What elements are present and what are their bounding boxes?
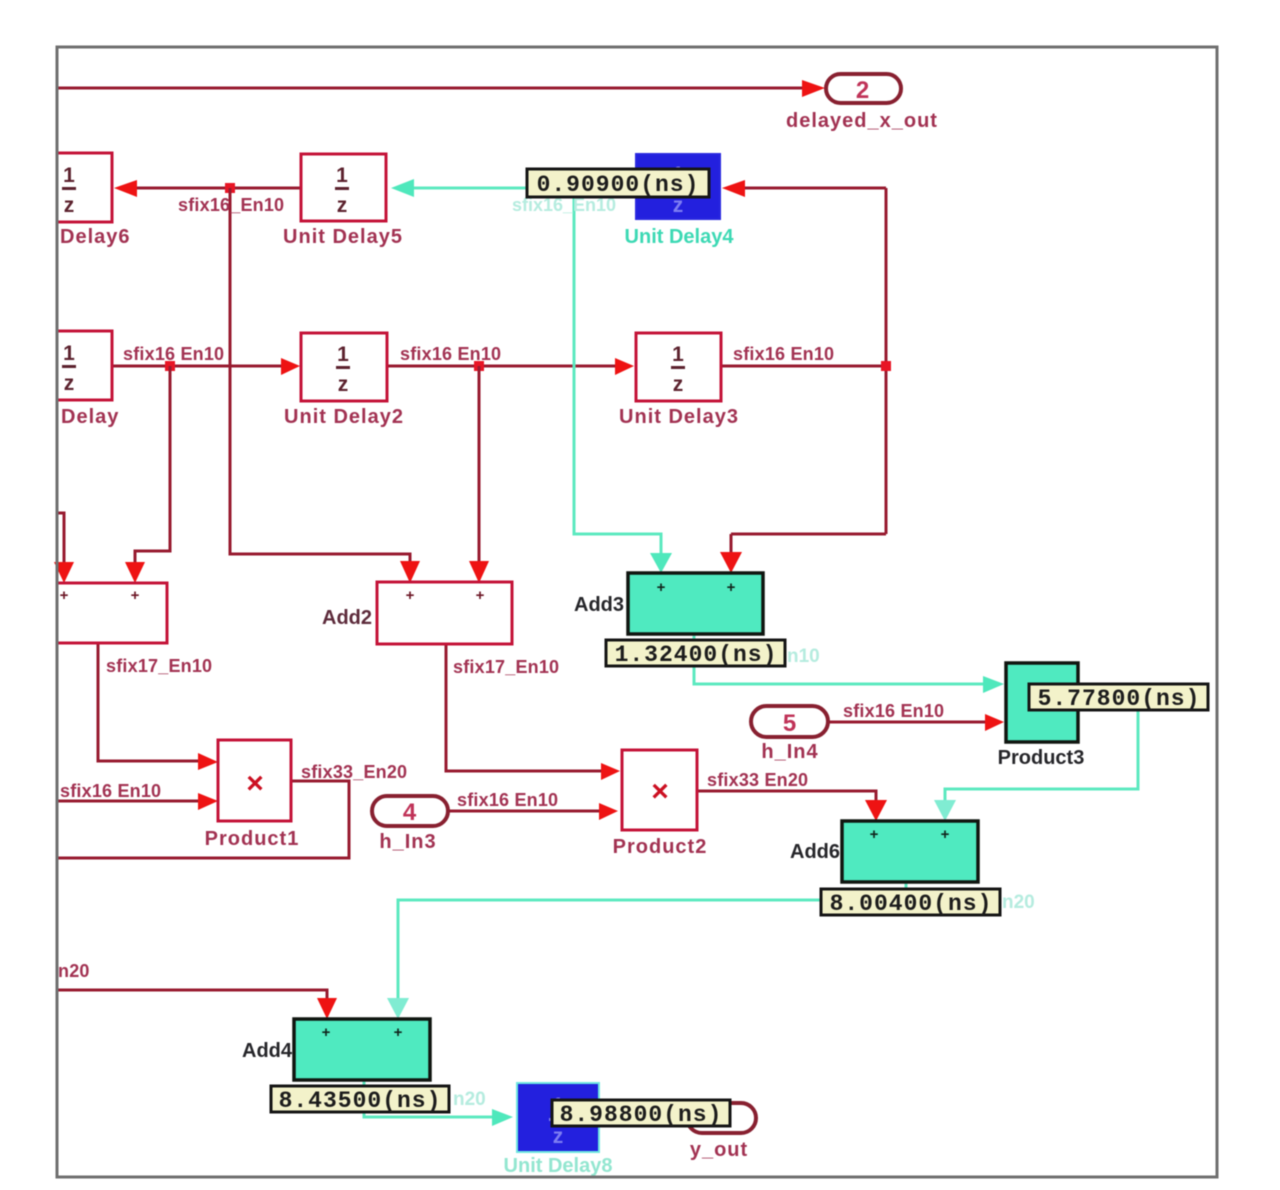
svg-text:Unit Delay8: Unit Delay8 <box>504 1155 613 1177</box>
timestamp 8.43500(ns) <box>271 1086 449 1114</box>
svg-text:delayed_x_out: delayed_x_out <box>786 110 938 132</box>
unit delay block Unit Delay8 (blue highlighted) <box>504 1083 613 1177</box>
wire junction x=170 down to Add1 input 2 <box>125 366 170 583</box>
svg-text:+: + <box>476 587 485 604</box>
wire junction x=230 down to Add2 input 1 <box>230 188 420 583</box>
wire Unit Delay3 output to x=886 vertical <box>721 188 886 534</box>
multiplier block Product2 <box>613 750 708 858</box>
svg-text:1: 1 <box>63 164 75 187</box>
wire Product1 output going left off frame <box>57 781 349 858</box>
svg-text:sfix16_En10: sfix16_En10 <box>178 195 284 215</box>
svg-text:Add6: Add6 <box>790 841 840 863</box>
svg-text:5.77800(ns): 5.77800(ns) <box>1038 686 1201 712</box>
wire junction x=479 down to Add2 input 2 <box>469 366 489 583</box>
adder block Add1 (partially clipped at frame) <box>57 583 167 643</box>
svg-text:2: 2 <box>856 77 870 104</box>
svg-text:+: + <box>322 1024 331 1041</box>
svg-text:sfix16 En10: sfix16 En10 <box>733 344 834 364</box>
svg-text:Unit Delay2: Unit Delay2 <box>284 406 404 428</box>
svg-text:sfix16 En10: sfix16 En10 <box>60 781 161 801</box>
svg-text:1.32400(ns): 1.32400(ns) <box>615 642 778 668</box>
inport 5 h_In4 <box>751 706 828 763</box>
svg-text:4: 4 <box>403 799 417 826</box>
svg-text:Product2: Product2 <box>613 836 708 858</box>
svg-text:+: + <box>131 587 140 604</box>
svg-text:+: + <box>657 579 666 596</box>
svg-text:n20: n20 <box>453 1089 486 1110</box>
svg-text:sfix16 En10: sfix16 En10 <box>400 344 501 364</box>
svg-text:sfix16 En10: sfix16 En10 <box>457 790 558 810</box>
wire from left edge into Add4 input 1 <box>57 990 337 1019</box>
wire into Unit Delay4 (from x=886 vertical) <box>722 180 886 197</box>
adder block Add3 (mint highlighted) <box>574 573 763 634</box>
svg-text:1: 1 <box>63 342 75 365</box>
svg-text:z: z <box>64 372 75 395</box>
svg-text:×: × <box>651 775 669 808</box>
svg-text:Unit Delay3: Unit Delay3 <box>619 406 739 428</box>
svg-text:8.98800(ns): 8.98800(ns) <box>560 1102 723 1128</box>
svg-text:n10: n10 <box>787 646 820 667</box>
wire h_In3 to Product2 input 2 <box>448 803 618 820</box>
svg-text:Delay: Delay <box>61 406 119 428</box>
wire Add1 output to Product1 input 1 <box>98 643 218 770</box>
wire Add4 output to Unit Delay8 (teal) <box>364 1080 513 1126</box>
inport 4 h_In3 <box>372 796 448 853</box>
svg-text:sfix33_En20: sfix33_En20 <box>301 762 407 782</box>
svg-text:8.43500(ns): 8.43500(ns) <box>279 1088 442 1114</box>
svg-text:+: + <box>727 579 736 596</box>
svg-text:y_out: y_out <box>690 1139 748 1161</box>
svg-text:+: + <box>941 826 950 843</box>
svg-text:+: + <box>60 587 69 604</box>
wire from left edge into Product1 input 2 <box>57 793 218 810</box>
wire Unit Delay8 to y_out (hidden under timestamp) <box>599 1116 687 1119</box>
wire Add3 output to Product3 input 1 (teal) <box>694 634 1004 693</box>
unit delay block Unit Delay5 <box>283 154 403 248</box>
wire Unit Delay4 output to Unit Delay5 (teal) <box>391 179 636 197</box>
adder block Add6 (mint highlighted) <box>790 821 978 882</box>
wire Add6 output to Add4 input 2 (teal) <box>387 882 906 1019</box>
multiplier block Product3 (mint highlighted) <box>998 663 1085 769</box>
wire to Add3 input 2 <box>720 534 886 573</box>
node junction at x=230 on Delay6 wire <box>225 183 235 193</box>
svg-text:Delay6: Delay6 <box>60 226 131 248</box>
svg-text:×: × <box>246 767 264 800</box>
svg-text:1: 1 <box>336 164 348 187</box>
svg-text:sfix17_En10: sfix17_En10 <box>453 657 559 677</box>
unit delay block Unit Delay3 <box>619 333 739 428</box>
svg-text:Add2: Add2 <box>322 607 372 629</box>
svg-text:z: z <box>673 373 684 396</box>
wire Product2 output to Add6 input 1 <box>697 791 887 821</box>
svg-text:n20: n20 <box>1002 892 1035 913</box>
svg-text:z: z <box>337 194 348 217</box>
timestamp 1.32400(ns) <box>606 640 785 668</box>
svg-text:+: + <box>394 1024 403 1041</box>
svg-text:sfix17_En10: sfix17_En10 <box>106 656 212 676</box>
svg-text:1: 1 <box>672 343 684 366</box>
adder block Add4 (mint highlighted) <box>242 1019 430 1080</box>
wire h_In4 to Product3 input 2 <box>828 714 1004 731</box>
svg-text:sfix16 En10: sfix16 En10 <box>123 344 224 364</box>
timestamp 8.00400(ns) <box>821 889 1000 917</box>
wire teal branch down to Add3 input 1 <box>574 188 672 573</box>
wire Unit Delay5 to Delay6 <box>114 180 301 197</box>
wire Product3 output to Add6 input 2 (teal) <box>934 701 1138 821</box>
svg-text:Product1: Product1 <box>205 828 300 850</box>
svg-text:5: 5 <box>783 710 797 737</box>
outport 2 delayed_x_out <box>786 74 938 132</box>
timestamp 0.90900(ns) <box>527 169 709 198</box>
outport y_out (behind timestamp) <box>687 1103 756 1161</box>
svg-text:z: z <box>338 373 349 396</box>
multiplier block Product1 <box>205 740 300 850</box>
svg-text:Product3: Product3 <box>998 747 1085 769</box>
adder block Add2 <box>322 582 512 644</box>
svg-text:+: + <box>870 826 879 843</box>
svg-text:Unit Delay4: Unit Delay4 <box>625 226 735 248</box>
wire delayed_x_out line <box>57 80 825 97</box>
unit delay block Unit Delay2 <box>284 333 404 428</box>
svg-text:sfix33 En20: sfix33 En20 <box>707 770 808 790</box>
node junction at x=886 <box>881 361 891 371</box>
svg-text:z: z <box>64 194 75 217</box>
wire Delay to Unit Delay2 <box>112 358 300 375</box>
svg-text:n20: n20 <box>58 961 90 981</box>
svg-text:z: z <box>553 1125 564 1148</box>
svg-text:Unit Delay5: Unit Delay5 <box>283 226 403 248</box>
svg-text:1: 1 <box>337 343 349 366</box>
svg-text:Add4: Add4 <box>242 1040 293 1062</box>
unit delay block Delay <box>57 331 119 428</box>
node junction at x=170 <box>165 361 175 371</box>
wire Add2 output to Product2 input 1 <box>446 644 620 780</box>
unit delay block Unit Delay4 (blue highlighted) <box>625 154 735 248</box>
svg-text:Add3: Add3 <box>574 594 624 616</box>
svg-text:h_In3: h_In3 <box>379 831 436 853</box>
svg-text:+: + <box>406 587 415 604</box>
node junction at x=479 <box>474 361 484 371</box>
svg-text:8.00400(ns): 8.00400(ns) <box>830 891 993 917</box>
timestamp 5.77800(ns) <box>1029 684 1208 712</box>
timestamp 8.98800(ns) <box>552 1100 730 1128</box>
svg-text:0.90900(ns): 0.90900(ns) <box>537 172 700 198</box>
svg-text:h_In4: h_In4 <box>761 741 818 763</box>
unit delay block Delay6 <box>57 153 131 248</box>
wire from left edge into Add1 input 1 <box>54 513 74 583</box>
wire Unit Delay2 to Unit Delay3 <box>387 358 634 375</box>
svg-text:sfix16 En10: sfix16 En10 <box>843 701 944 721</box>
